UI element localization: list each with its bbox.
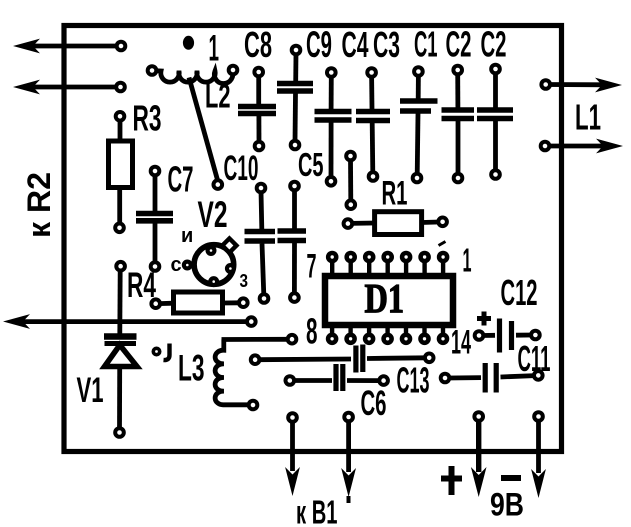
board outline border xyxy=(64,26,562,452)
svg-text:и: и xyxy=(181,225,193,247)
svg-text:C5: C5 xyxy=(298,146,324,183)
output arrow +9V xyxy=(474,412,483,421)
D1 pin stubs bottom xyxy=(332,327,443,336)
svg-text:1: 1 xyxy=(209,28,220,69)
wire output arrow middle-left xyxy=(16,319,251,324)
svg-text:с: с xyxy=(171,254,182,276)
svg-text:R1: R1 xyxy=(382,175,408,213)
speck apostrophe xyxy=(347,496,351,503)
svg-text:C2: C2 xyxy=(481,24,507,65)
svg-text:к В1: к В1 xyxy=(296,494,338,527)
svg-text:D1: D1 xyxy=(365,275,405,321)
svg-text:L1: L1 xyxy=(575,97,601,138)
wire output arrow right L1 upper xyxy=(546,82,609,87)
svg-text:1: 1 xyxy=(463,242,472,279)
wire output arrow top-left 2 xyxy=(26,85,121,90)
svg-text:C12: C12 xyxy=(501,272,538,313)
svg-text:C1: C1 xyxy=(414,24,438,65)
V2 lead top xyxy=(208,247,215,254)
capacitor C13 (on wire under D1) xyxy=(251,355,260,364)
D1 pins bottom row (8..14) xyxy=(328,335,336,343)
jumper terminal J xyxy=(153,348,159,354)
svg-text:14: 14 xyxy=(451,324,471,362)
svg-text:C8: C8 xyxy=(244,24,272,65)
svg-text:C3: C3 xyxy=(373,24,400,65)
svg-text:L3: L3 xyxy=(178,348,205,389)
wire diagonal from L2 tap xyxy=(189,78,218,182)
output arrow к В1 (left) xyxy=(288,413,297,422)
svg-text:C13: C13 xyxy=(397,360,430,401)
wire short vertical (near C5/R1) xyxy=(346,152,355,161)
svg-text:C6: C6 xyxy=(361,384,387,423)
marker dot near L2 xyxy=(183,36,194,50)
svg-text:V2: V2 xyxy=(198,194,228,235)
svg-text:C2: C2 xyxy=(446,24,472,65)
svg-text:9В: 9В xyxy=(490,487,524,523)
output arrow -9V xyxy=(534,412,543,421)
V2 lead right xyxy=(227,265,234,272)
wire output arrow top-left 1 xyxy=(26,44,121,49)
C12 polarity + xyxy=(477,312,491,326)
V2 lead bottom xyxy=(210,278,217,285)
D1 pin stubs top xyxy=(332,260,443,274)
tick above pin 1 xyxy=(438,240,446,247)
D1 pins top row (7..1) xyxy=(328,253,336,261)
svg-text:C10: C10 xyxy=(224,149,259,188)
svg-text:7: 7 xyxy=(307,248,317,286)
V2 case tab (diamond) xyxy=(222,238,236,252)
wire output arrow right L1 lower xyxy=(545,144,610,149)
svg-text:C4: C4 xyxy=(342,24,369,65)
svg-text:L2: L2 xyxy=(205,78,231,116)
svg-text:V1: V1 xyxy=(77,371,104,410)
IC D1 xyxy=(325,276,453,325)
svg-text:к R2: к R2 xyxy=(21,172,57,238)
svg-text:8: 8 xyxy=(306,311,318,352)
plus label xyxy=(441,466,462,495)
minus label xyxy=(501,475,521,481)
svg-text:R3: R3 xyxy=(133,98,162,139)
output arrow к В1 (right) xyxy=(344,413,353,422)
svg-text:3: 3 xyxy=(240,271,249,291)
capacitor C6 xyxy=(286,376,295,385)
V2 lead left (с) xyxy=(184,262,191,269)
svg-text:C7: C7 xyxy=(168,159,194,200)
svg-text:C9: C9 xyxy=(306,24,332,65)
inductor L2 xyxy=(152,71,233,84)
